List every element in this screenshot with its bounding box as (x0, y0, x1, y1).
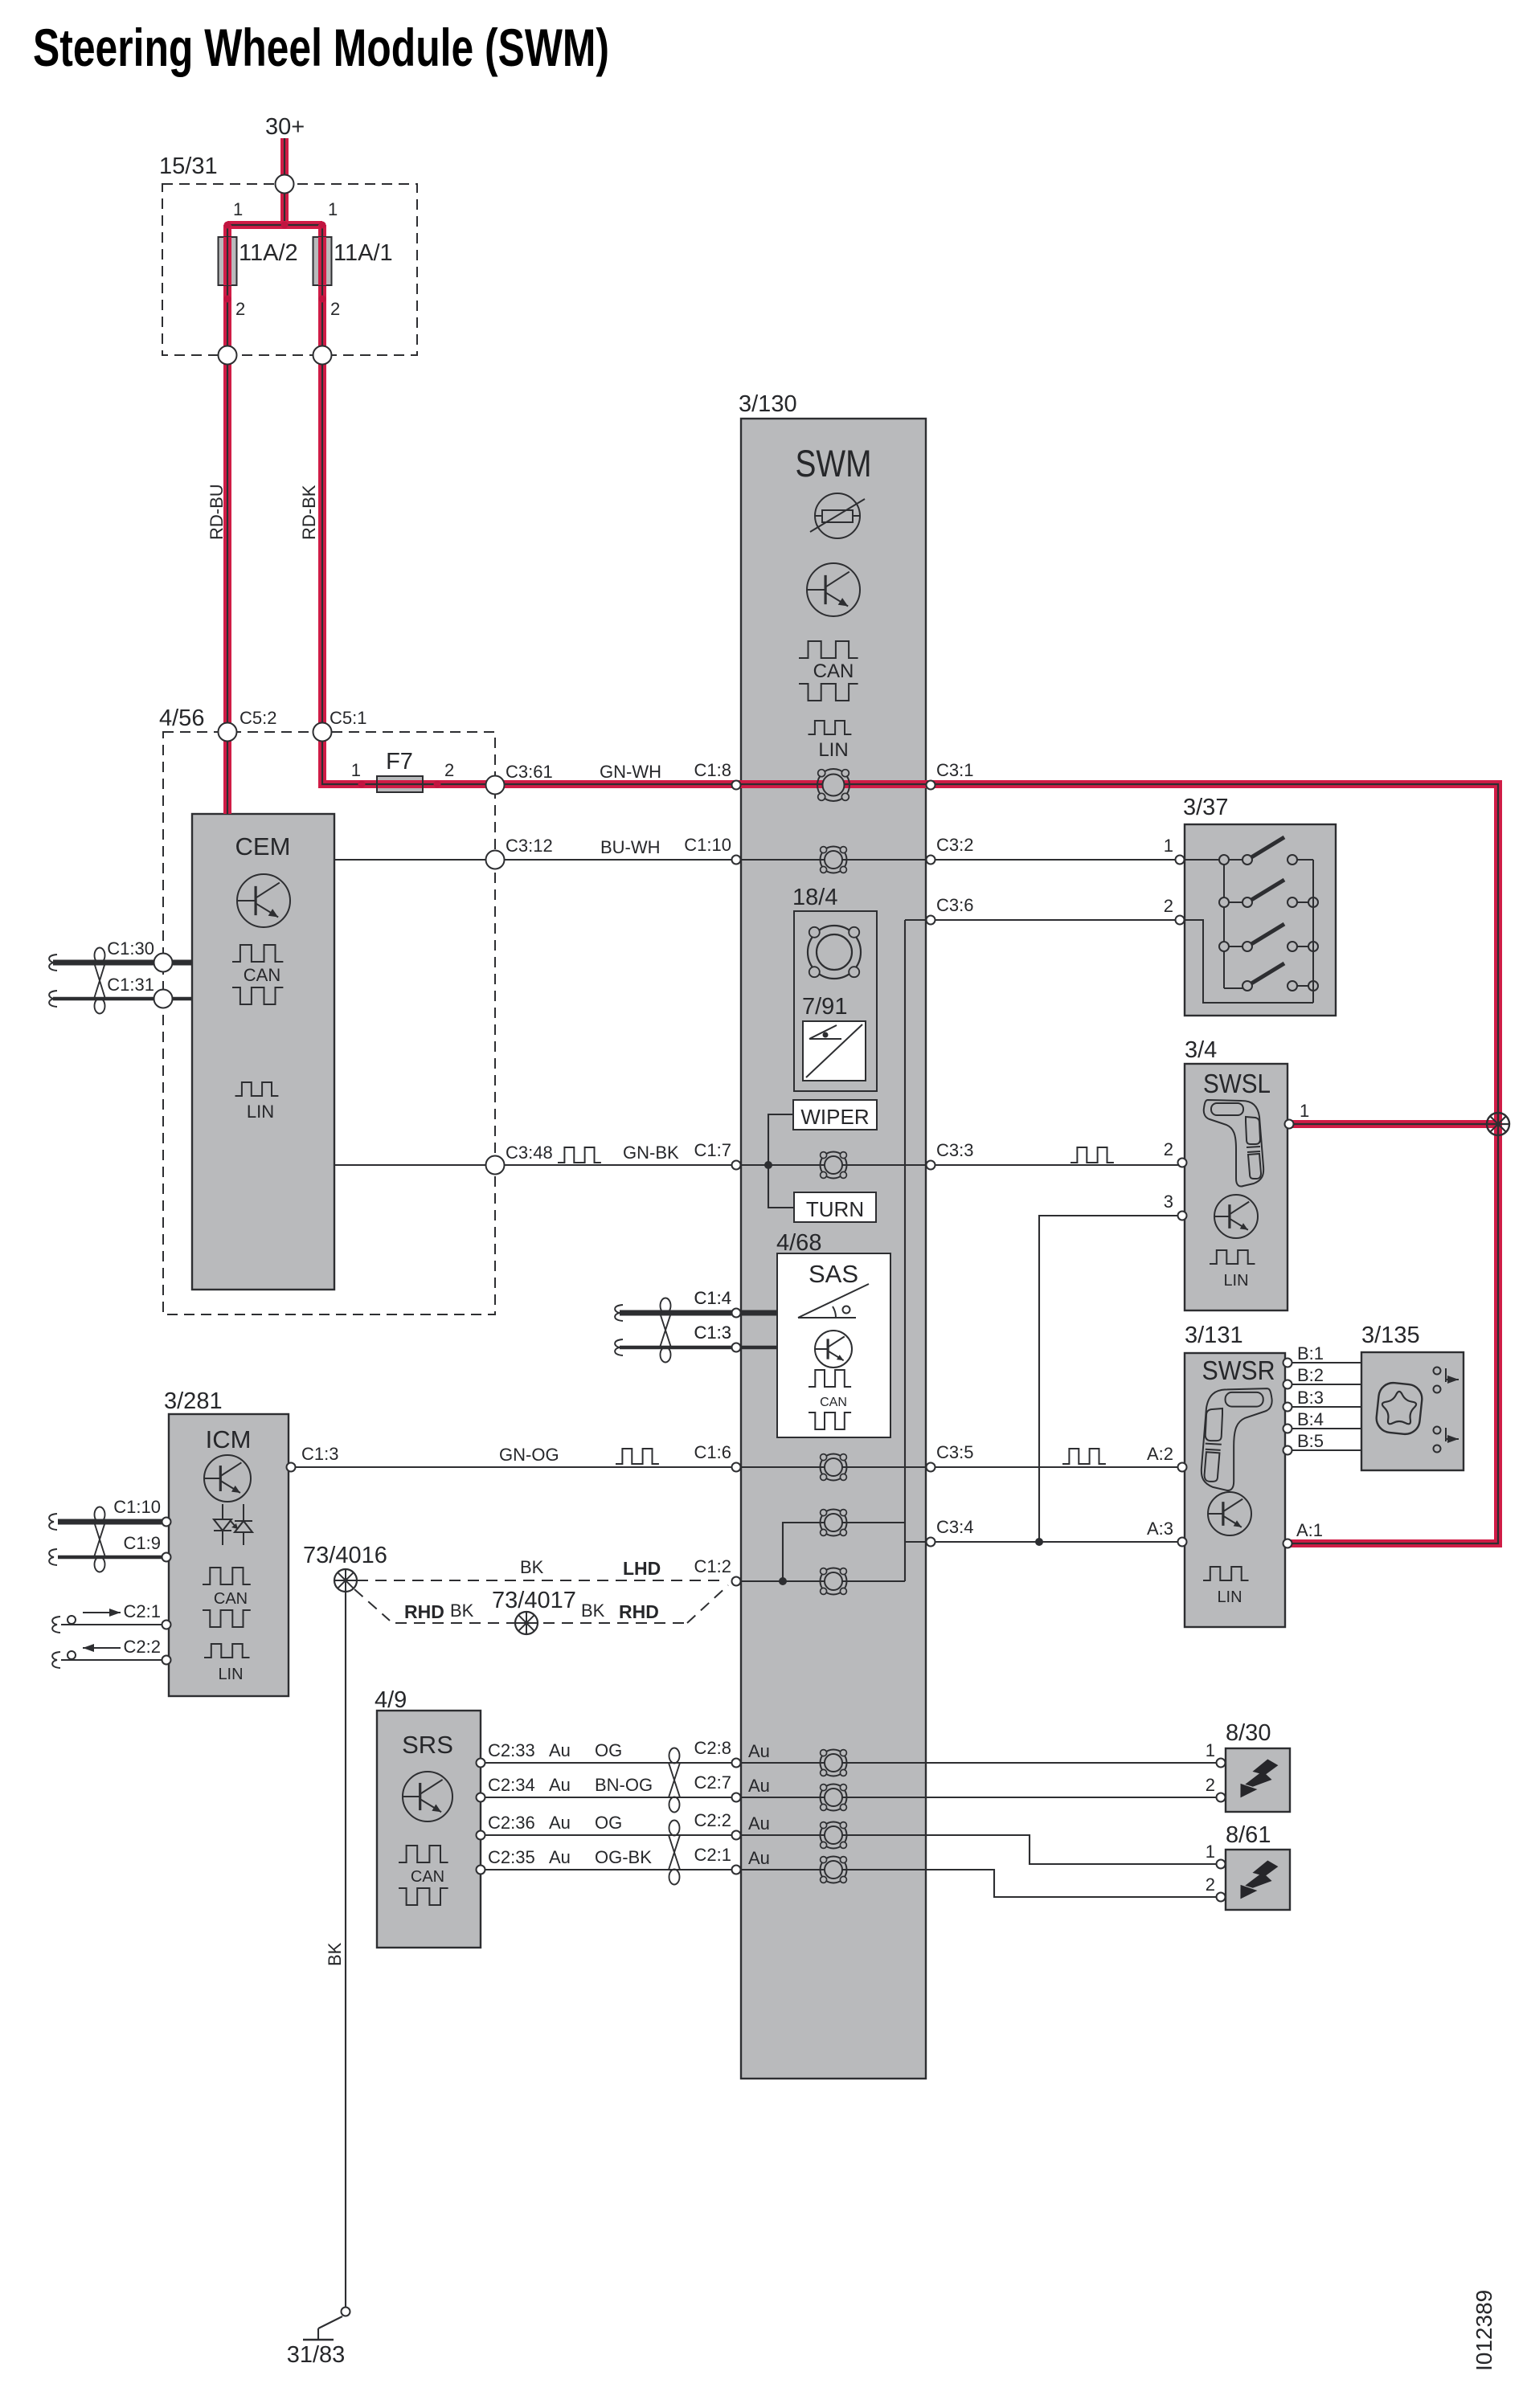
svg-text:B:3: B:3 (1297, 1388, 1324, 1408)
svg-text:LHD: LHD (623, 1558, 661, 1579)
svg-text:OG-BK: OG-BK (595, 1847, 652, 1867)
svg-text:B:4: B:4 (1297, 1409, 1324, 1429)
svg-text:8/30: 8/30 (1226, 1720, 1271, 1746)
svg-text:GN-BK: GN-BK (623, 1143, 679, 1163)
svg-text:C3:5: C3:5 (936, 1442, 973, 1462)
svg-text:31/83: 31/83 (287, 2342, 346, 2368)
svg-text:A:3: A:3 (1147, 1519, 1173, 1539)
svg-text:C2:1: C2:1 (124, 1601, 161, 1621)
svg-text:C2:2: C2:2 (124, 1637, 161, 1657)
svg-text:2: 2 (1206, 1874, 1215, 1895)
svg-text:C2:35: C2:35 (488, 1847, 535, 1867)
svg-text:18/4: 18/4 (792, 885, 837, 910)
svg-text:2: 2 (330, 299, 340, 319)
svg-text:Au: Au (748, 1813, 770, 1834)
svg-text:SAS: SAS (809, 1260, 858, 1288)
svg-text:C2:7: C2:7 (694, 1772, 731, 1793)
svg-text:B:1: B:1 (1297, 1343, 1324, 1363)
svg-text:C1:4: C1:4 (694, 1288, 731, 1308)
svg-text:2: 2 (1206, 1775, 1215, 1795)
svg-text:Steering Wheel Module (SWM): Steering Wheel Module (SWM) (33, 18, 609, 77)
svg-text:RD-BU: RD-BU (207, 484, 227, 540)
svg-text:BK: BK (325, 1942, 345, 1966)
svg-text:3/281: 3/281 (164, 1388, 223, 1414)
svg-text:C2:8: C2:8 (694, 1738, 731, 1758)
svg-text:BK: BK (450, 1601, 474, 1621)
svg-text:LIN: LIN (1217, 1588, 1242, 1606)
svg-text:SRS: SRS (402, 1731, 453, 1759)
svg-text:2: 2 (235, 299, 245, 319)
svg-text:C1:3: C1:3 (301, 1444, 338, 1464)
svg-text:GN-WH: GN-WH (600, 762, 661, 782)
svg-text:C2:1: C2:1 (694, 1845, 731, 1865)
svg-text:LIN: LIN (247, 1102, 274, 1122)
svg-text:1: 1 (351, 760, 361, 780)
svg-text:LIN: LIN (1223, 1272, 1248, 1290)
svg-text:TURN: TURN (806, 1197, 864, 1221)
svg-text:3/37: 3/37 (1183, 795, 1228, 820)
svg-text:C3:6: C3:6 (936, 895, 973, 915)
svg-text:8/61: 8/61 (1226, 1822, 1271, 1848)
svg-text:CEM: CEM (235, 832, 291, 861)
svg-text:3/4: 3/4 (1185, 1037, 1217, 1063)
svg-text:C1:31: C1:31 (107, 975, 154, 995)
svg-text:1: 1 (1206, 1740, 1215, 1760)
svg-text:3/130: 3/130 (739, 391, 797, 417)
svg-text:2: 2 (1164, 1139, 1173, 1159)
svg-text:1: 1 (233, 199, 243, 219)
svg-text:2: 2 (1164, 896, 1173, 916)
svg-text:11A/2: 11A/2 (239, 240, 298, 266)
svg-text:CAN: CAN (214, 1590, 248, 1608)
svg-text:C3:48: C3:48 (506, 1143, 553, 1163)
svg-text:RD-BK: RD-BK (299, 484, 319, 540)
svg-text:73/4017: 73/4017 (492, 1588, 576, 1613)
svg-text:CAN: CAN (813, 660, 854, 682)
svg-text:C1:2: C1:2 (694, 1556, 731, 1576)
svg-text:ICM: ICM (206, 1425, 252, 1453)
svg-text:C2:33: C2:33 (488, 1740, 535, 1760)
svg-text:Au: Au (549, 1740, 571, 1760)
svg-text:C1:9: C1:9 (124, 1533, 161, 1553)
svg-text:3/131: 3/131 (1185, 1323, 1243, 1348)
svg-text:11A/1: 11A/1 (334, 240, 393, 266)
svg-text:C1:7: C1:7 (694, 1140, 731, 1160)
svg-text:CAN: CAN (411, 1868, 444, 1886)
svg-text:30+: 30+ (265, 114, 305, 140)
svg-text:Au: Au (549, 1847, 571, 1867)
svg-text:C3:1: C3:1 (936, 760, 973, 780)
svg-text:B:2: B:2 (1297, 1365, 1324, 1385)
svg-text:7/91: 7/91 (802, 994, 847, 1020)
svg-text:3: 3 (1164, 1192, 1173, 1212)
svg-text:B:5: B:5 (1297, 1431, 1324, 1451)
svg-text:C3:3: C3:3 (936, 1140, 973, 1160)
svg-text:RHD: RHD (619, 1601, 659, 1622)
svg-text:Au: Au (748, 1741, 770, 1761)
svg-text:C5:2: C5:2 (239, 708, 276, 728)
svg-text:C3:4: C3:4 (936, 1517, 973, 1537)
svg-text:BN-OG: BN-OG (595, 1775, 653, 1795)
svg-text:4/56: 4/56 (159, 705, 204, 731)
svg-text:1: 1 (1300, 1101, 1309, 1121)
svg-text:I012389: I012389 (1472, 2290, 1496, 2371)
svg-text:2: 2 (444, 760, 454, 780)
svg-text:1: 1 (1164, 836, 1173, 856)
svg-text:C3:12: C3:12 (506, 836, 553, 856)
svg-text:4/68: 4/68 (776, 1230, 821, 1256)
svg-text:C3:2: C3:2 (936, 835, 973, 855)
svg-text:A:1: A:1 (1296, 1520, 1323, 1540)
svg-text:BK: BK (520, 1557, 544, 1577)
svg-text:3/135: 3/135 (1361, 1323, 1420, 1348)
svg-text:C1:30: C1:30 (107, 938, 154, 959)
svg-text:Au: Au (748, 1848, 770, 1868)
svg-text:Au: Au (549, 1813, 571, 1833)
svg-text:1: 1 (1206, 1842, 1215, 1862)
svg-text:C1:8: C1:8 (694, 760, 731, 780)
svg-text:C1:10: C1:10 (684, 835, 731, 855)
svg-text:CAN: CAN (244, 965, 280, 985)
svg-text:Au: Au (748, 1776, 770, 1796)
svg-text:BU-WH: BU-WH (600, 837, 661, 857)
svg-text:LIN: LIN (218, 1666, 243, 1683)
svg-text:73/4016: 73/4016 (303, 1543, 387, 1568)
svg-text:15/31: 15/31 (159, 153, 218, 179)
svg-text:GN-OG: GN-OG (499, 1445, 559, 1465)
svg-text:WIPER: WIPER (800, 1105, 869, 1129)
svg-text:C2:34: C2:34 (488, 1775, 535, 1795)
svg-text:F7: F7 (386, 749, 413, 775)
svg-text:C2:36: C2:36 (488, 1813, 535, 1833)
svg-text:4/9: 4/9 (375, 1687, 407, 1713)
svg-text:SWSR: SWSR (1202, 1355, 1275, 1385)
svg-text:CAN: CAN (820, 1396, 847, 1409)
svg-text:Au: Au (549, 1775, 571, 1795)
svg-text:C2:2: C2:2 (694, 1810, 731, 1830)
svg-text:OG: OG (595, 1740, 622, 1760)
svg-text:C1:6: C1:6 (694, 1442, 731, 1462)
svg-text:SWSL: SWSL (1203, 1069, 1271, 1098)
svg-text:BK: BK (581, 1601, 605, 1621)
svg-text:SWM: SWM (796, 442, 872, 484)
svg-text:C5:1: C5:1 (330, 708, 366, 728)
svg-text:LIN: LIN (818, 739, 848, 761)
svg-text:1: 1 (328, 199, 338, 219)
svg-text:C3:61: C3:61 (506, 762, 553, 782)
svg-text:A:2: A:2 (1147, 1444, 1173, 1464)
svg-text:RHD: RHD (404, 1601, 444, 1622)
svg-text:C1:10: C1:10 (113, 1497, 161, 1517)
svg-text:C1:3: C1:3 (694, 1323, 731, 1343)
svg-text:OG: OG (595, 1813, 622, 1833)
